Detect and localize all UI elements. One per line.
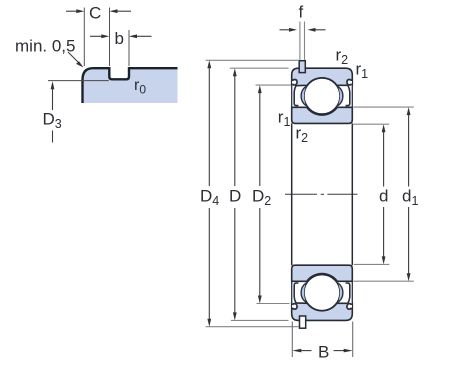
dimension D2 bbox=[252, 85, 291, 303]
dimension D bbox=[229, 68, 289, 320]
shield left bbox=[294, 85, 298, 106]
shield-groove lip left bbox=[292, 79, 297, 84]
svg-text:r1: r1 bbox=[356, 59, 369, 81]
dimension D3 bbox=[43, 81, 62, 142]
dimension d1 bbox=[354, 107, 419, 281]
svg-text:d: d bbox=[379, 186, 388, 205]
svg-text:f: f bbox=[299, 3, 304, 22]
svg-text:D4: D4 bbox=[200, 186, 219, 208]
face silhouette line right bbox=[351, 84, 353, 109]
shield recess notch left (white) bbox=[292, 79, 298, 87]
shield right bbox=[346, 85, 350, 106]
ring section outline bbox=[83, 68, 178, 103]
svg-text:D3: D3 bbox=[43, 110, 62, 132]
cage right outer edge bbox=[338, 86, 343, 105]
dimension b bbox=[90, 29, 152, 66]
top half of bearing bbox=[292, 68, 353, 123]
shield-groove lip right bbox=[347, 79, 352, 84]
bottom half of bearing (mirror) bbox=[292, 265, 353, 320]
cage right fill bbox=[338, 86, 343, 105]
center axis (dash-dot) bbox=[285, 193, 358, 195]
cage left fill bbox=[301, 86, 306, 105]
face silhouette line left bbox=[291, 84, 293, 109]
dimension d bbox=[353, 124, 390, 264]
bore silhouette lines bbox=[291, 123, 293, 265]
snap ring groove (bottom, open) bbox=[300, 316, 306, 328]
svg-text:r1: r1 bbox=[278, 107, 291, 129]
ball bbox=[304, 78, 340, 114]
dimension f bbox=[280, 3, 326, 60]
svg-text:C: C bbox=[89, 3, 101, 22]
dimension C bbox=[66, 3, 131, 66]
dimension B bbox=[292, 322, 352, 362]
snap ring tab (top, sectioned) bbox=[299, 61, 305, 73]
cage left outer edge bbox=[301, 86, 306, 105]
svg-text:r2: r2 bbox=[336, 46, 349, 68]
svg-text:D: D bbox=[229, 186, 241, 205]
D3 extension line bbox=[48, 80, 109, 82]
svg-text:min. 0,5: min. 0,5 bbox=[15, 37, 75, 56]
svg-text:r2: r2 bbox=[296, 124, 309, 146]
shield recess notch right (white) bbox=[346, 79, 352, 87]
ring section fill bbox=[83, 68, 178, 103]
svg-text:D2: D2 bbox=[252, 186, 271, 208]
dimension D4 bbox=[200, 60, 299, 326]
min. 0,5 label with leader bbox=[15, 37, 84, 68]
inner ring bbox=[292, 107, 353, 123]
outer ring bbox=[292, 68, 353, 86]
svg-text:b: b bbox=[115, 29, 124, 48]
svg-text:B: B bbox=[318, 343, 329, 362]
svg-text:d1: d1 bbox=[402, 186, 418, 208]
